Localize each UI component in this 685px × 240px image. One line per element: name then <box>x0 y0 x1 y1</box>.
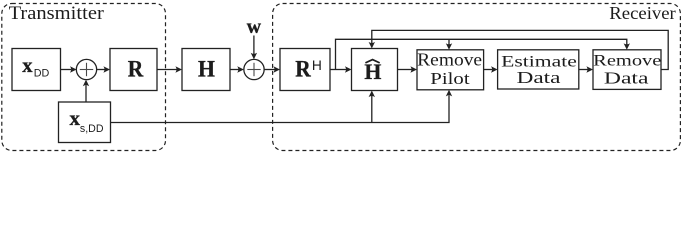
block R^H <box>280 49 330 91</box>
block Estimate Data <box>498 50 579 89</box>
wire Remove Pilot to Estimate Data <box>484 66 498 72</box>
wire pilot distribution bottom <box>111 90 453 123</box>
svg-text:R: R <box>295 57 311 82</box>
block x_s,DD <box>59 102 111 143</box>
svg-text:w: w <box>247 16 262 38</box>
block Hhat <box>352 49 398 91</box>
svg-text:R: R <box>128 57 144 82</box>
dashed container Transmitter <box>2 4 166 151</box>
svg-text:Remove: Remove <box>593 52 661 69</box>
svg-text:DD: DD <box>34 68 50 80</box>
wire Hhat to Remove Pilot <box>398 66 418 72</box>
svg-text:x: x <box>22 55 32 77</box>
wire x_DD to adder1 <box>61 66 77 72</box>
label w <box>247 16 262 38</box>
label Transmitter <box>9 4 104 24</box>
svg-text:Data: Data <box>517 68 562 87</box>
block Remove Pilot <box>417 49 484 89</box>
wire w down to adder2 <box>251 36 257 60</box>
wire R to H <box>157 66 182 72</box>
dashed container Receiver <box>273 4 681 151</box>
block Remove Data <box>593 50 661 90</box>
svg-text:H: H <box>198 57 215 82</box>
adder A1 <box>76 59 96 79</box>
svg-text:Receiver: Receiver <box>609 3 676 23</box>
wire x_s,DD up to adder1 <box>83 80 89 102</box>
adder A2 <box>244 59 264 79</box>
wire feedback loop Remove Data to Hhat <box>369 30 669 69</box>
wire H to adder2 <box>230 66 244 72</box>
svg-text:Pilot: Pilot <box>430 69 470 88</box>
svg-text:x: x <box>70 108 81 130</box>
wire adder2 to R^H <box>264 66 280 72</box>
wire adder1 to R <box>97 66 110 72</box>
svg-text:Data: Data <box>604 69 650 88</box>
wire received-signal distribution <box>336 39 631 69</box>
svg-text:Remove: Remove <box>417 49 482 69</box>
block x_DD <box>12 49 61 91</box>
block H <box>182 49 230 91</box>
block R <box>110 49 157 91</box>
label Receiver <box>609 3 676 23</box>
svg-text:s,DD: s,DD <box>80 123 104 135</box>
wire Estimate Data to Remove Data <box>579 66 593 72</box>
wire R^H to Hhat <box>330 66 352 72</box>
svg-text:H: H <box>312 57 322 73</box>
svg-text:Transmitter: Transmitter <box>9 4 104 24</box>
